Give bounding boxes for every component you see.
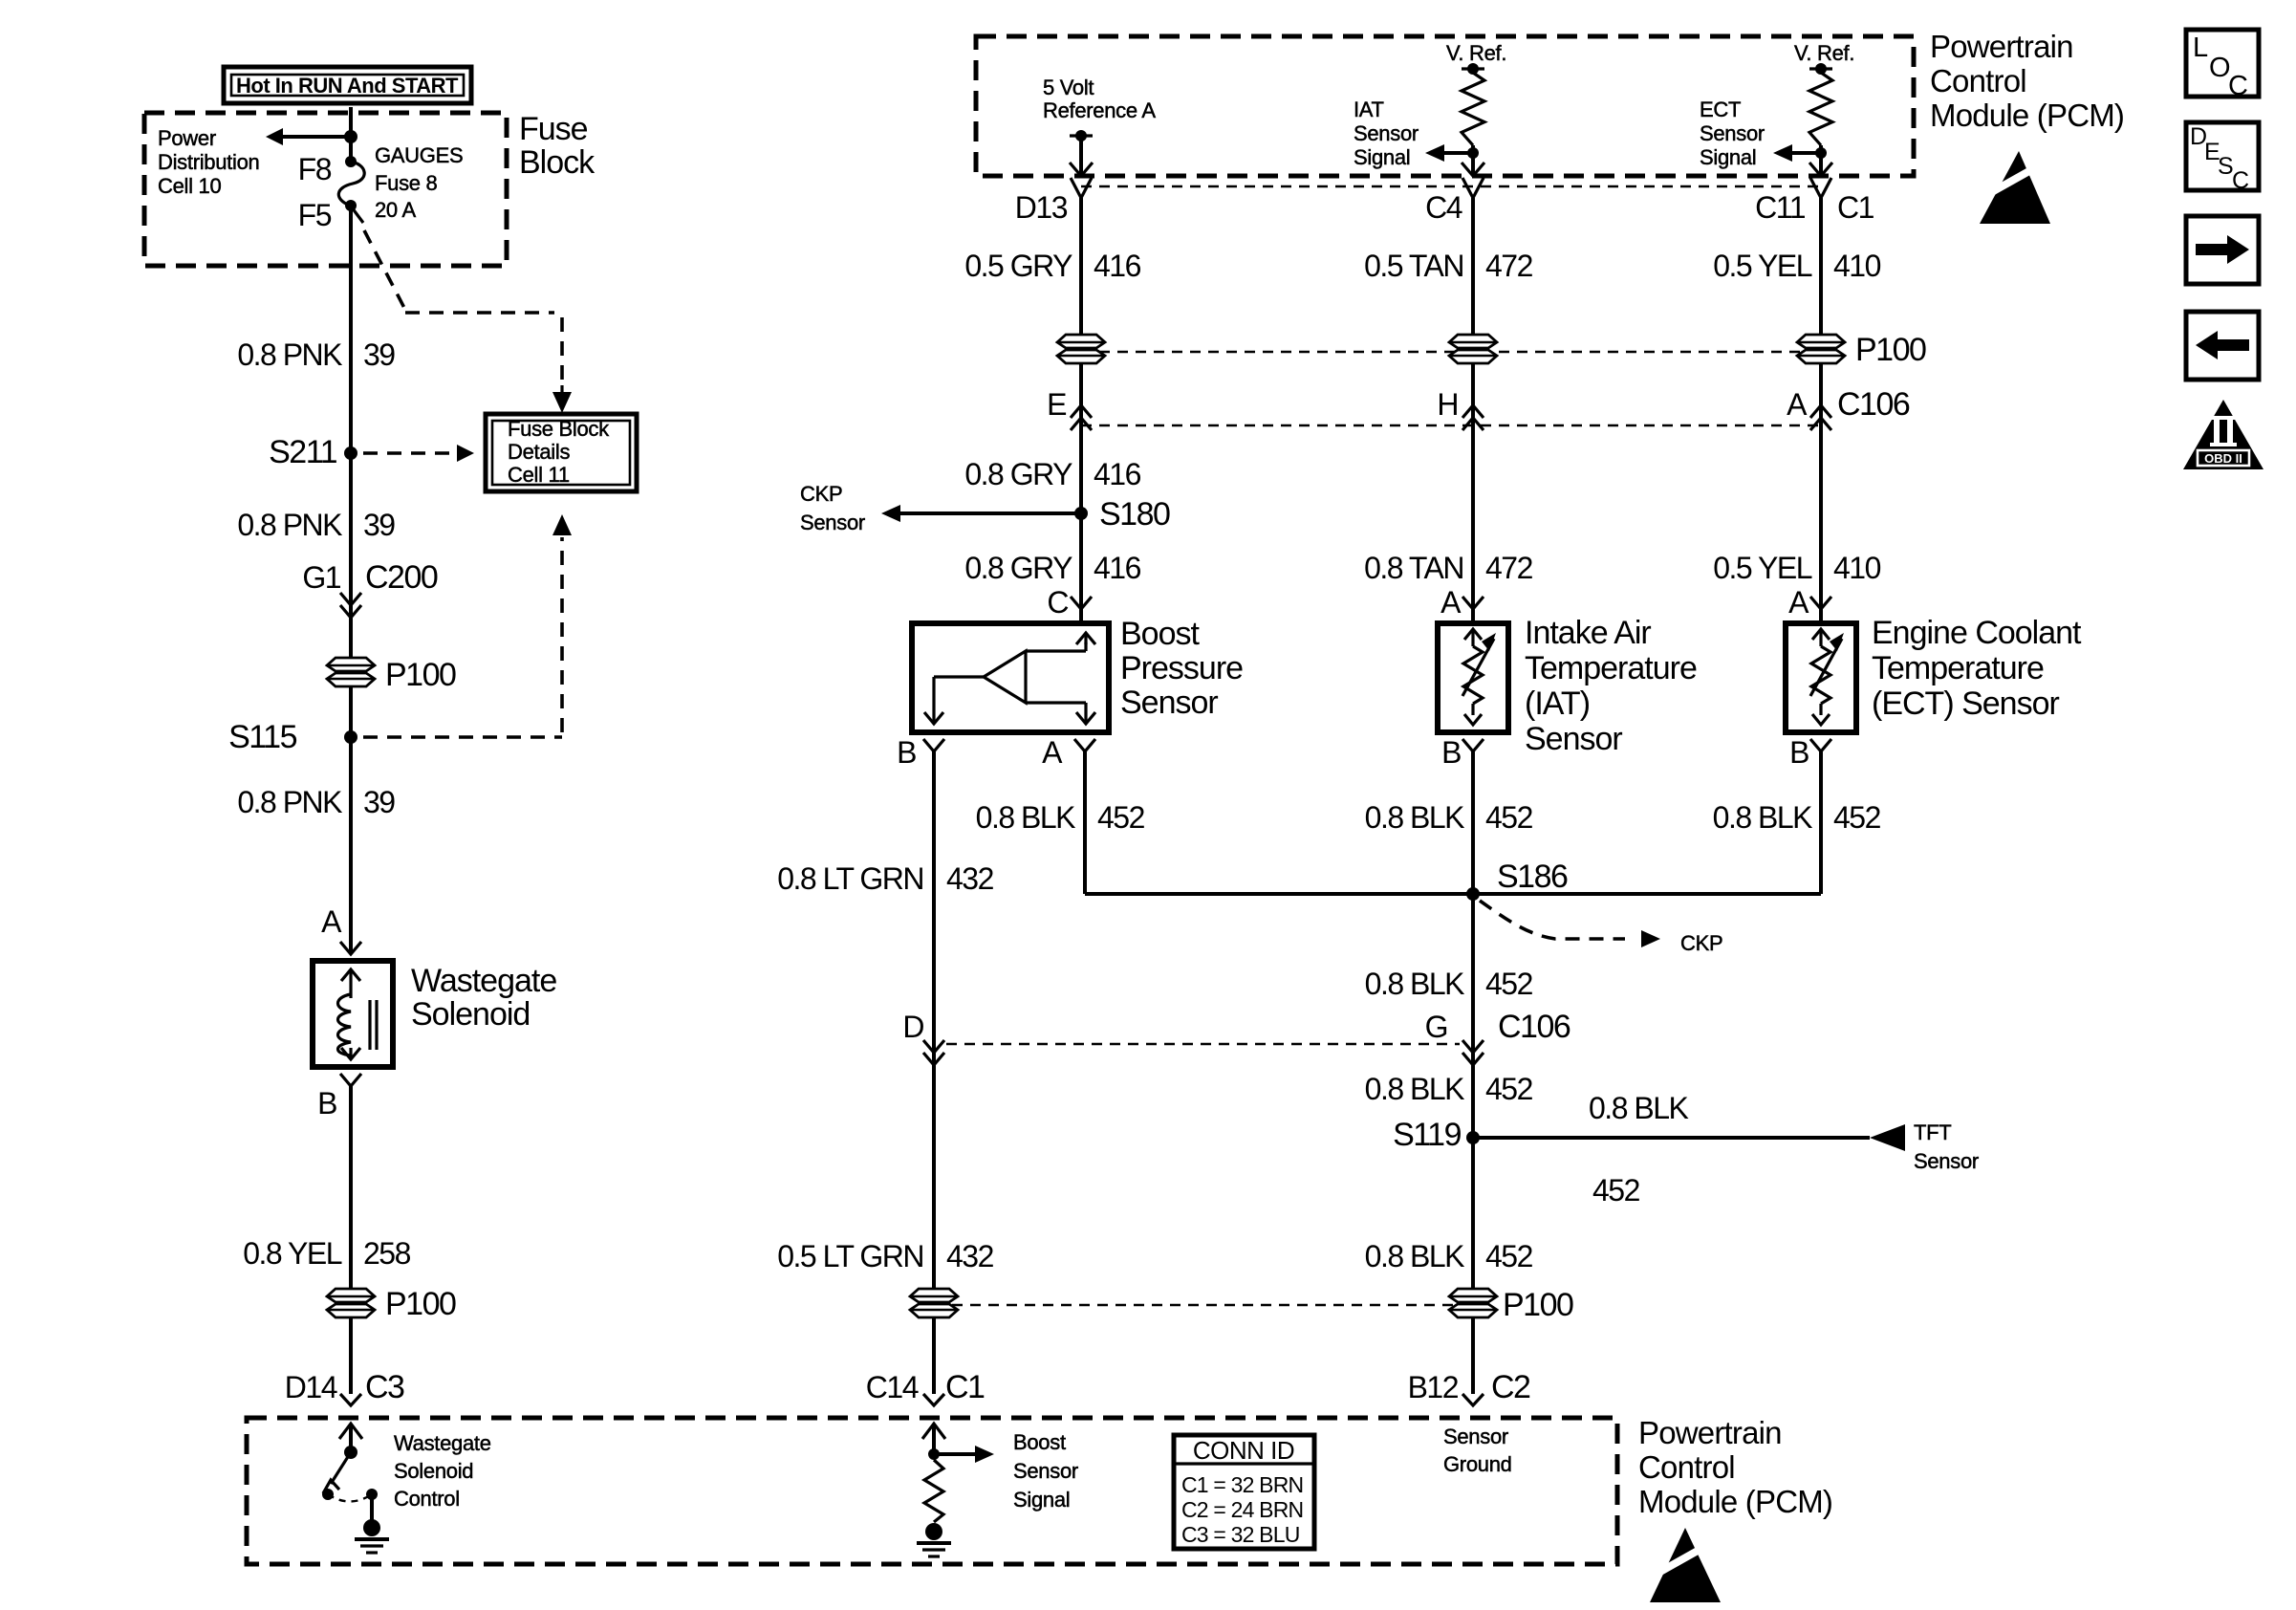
wire solenoid to PCM D14 (349, 1086, 353, 1394)
pin C11 C1 connector (1810, 178, 1831, 198)
connector P100 (TAN wire) (1449, 335, 1497, 348)
svg-text:C14: C14 (866, 1370, 919, 1404)
svg-text:D14: D14 (285, 1370, 337, 1404)
pin D13 connector (1071, 178, 1092, 198)
male pin C4 inside PCM (1462, 163, 1484, 176)
svg-text:Temperature: Temperature (1872, 650, 2044, 686)
dashed pointer S186 to CKP (1480, 901, 1625, 939)
wire S180 to CKP sensor (899, 511, 1081, 515)
connector P100 (LT GRN wire) (910, 1289, 958, 1302)
svg-text:452: 452 (1485, 1072, 1533, 1106)
svg-text:0.8 BLK: 0.8 BLK (1365, 967, 1465, 1001)
svg-text:B: B (1441, 735, 1461, 770)
svg-text:C3: C3 (365, 1369, 404, 1405)
svg-text:258: 258 (363, 1236, 411, 1271)
svg-text:C2: C2 (1491, 1369, 1530, 1405)
svg-text:Boost: Boost (1120, 616, 1200, 652)
svg-text:C: C (2228, 71, 2248, 101)
svg-text:Signal: Signal (1354, 145, 1410, 169)
fuse tail tick (352, 207, 363, 223)
svg-text:Distribution: Distribution (158, 150, 259, 174)
svg-text:C: C (2232, 167, 2249, 194)
svg-text:Solenoid: Solenoid (411, 996, 530, 1033)
svg-text:G1: G1 (302, 560, 340, 595)
dashed line S115 to details box (363, 735, 562, 739)
svg-text:Pressure: Pressure (1120, 650, 1243, 686)
boost pressure sensor box (912, 623, 1109, 732)
svg-text:C1: C1 (1837, 190, 1874, 225)
wire C11 to ECT sensor (1819, 198, 1823, 623)
svg-text:CKP: CKP (800, 482, 842, 506)
fuse block dashed box (144, 113, 507, 266)
wire fuse to wastegate solenoid (349, 206, 353, 954)
svg-text:Control: Control (1638, 1449, 1735, 1485)
wire ECT B to splice S186 (1819, 751, 1823, 894)
svg-text:Ground: Ground (1443, 1452, 1512, 1476)
pin C4 connector (1462, 178, 1484, 198)
svg-text:452: 452 (1485, 967, 1533, 1001)
V ref node (ECT) (1815, 63, 1827, 75)
svg-text:Sensor: Sensor (1700, 121, 1765, 145)
svg-text:0.8 PNK: 0.8 PNK (237, 785, 342, 819)
dashed pointer from fuse to fuse block details (364, 230, 405, 310)
svg-text:GAUGES: GAUGES (375, 143, 463, 167)
svg-text:B12: B12 (1408, 1370, 1459, 1404)
svg-text:Sensor: Sensor (1525, 721, 1622, 757)
splice S180 (1074, 507, 1088, 520)
back arrow icon (2186, 312, 2259, 380)
connector C106 row dashed link (1081, 424, 1821, 426)
svg-text:S180: S180 (1099, 496, 1170, 533)
svg-text:Solenoid: Solenoid (394, 1459, 473, 1483)
resistor in PCM (IAT pull-up) (1462, 73, 1484, 145)
DESC icon (2186, 122, 2259, 190)
IAT sensor box (1438, 623, 1508, 732)
svg-text:0.8 PNK: 0.8 PNK (237, 337, 342, 372)
male pin C14 below PCM edge (922, 1424, 945, 1439)
svg-text:C11: C11 (1755, 190, 1806, 225)
svg-text:C: C (1047, 585, 1068, 620)
svg-text:V. Ref.: V. Ref. (1794, 41, 1854, 65)
svg-text:432: 432 (946, 1239, 994, 1273)
svg-text:Control: Control (394, 1487, 460, 1511)
svg-text:0.8 BLK: 0.8 BLK (976, 800, 1076, 835)
svg-text:C1: C1 (945, 1369, 985, 1405)
wire boost B down to PCM C14 (932, 751, 936, 1394)
svg-text:F5: F5 (298, 198, 332, 232)
svg-text:A: A (1042, 735, 1063, 770)
svg-text:0.8 GRY: 0.8 GRY (964, 457, 1072, 491)
svg-text:0.8 BLK: 0.8 BLK (1713, 800, 1813, 835)
svg-text:39: 39 (363, 785, 395, 819)
arrow into details box bottom (552, 514, 572, 535)
boost sensor internal amplifier (984, 651, 1026, 703)
svg-text:472: 472 (1485, 551, 1533, 585)
svg-text:Module (PCM): Module (PCM) (1638, 1484, 1832, 1519)
wire to power distribution arrow (283, 135, 351, 139)
5 volt reference node (1075, 130, 1087, 141)
svg-text:Sensor: Sensor (1914, 1149, 1979, 1173)
svg-text:CONN ID: CONN ID (1193, 1436, 1294, 1465)
arrow to CKP sensor (881, 505, 900, 522)
fuse F8/F5 GAUGES element (345, 156, 357, 167)
svg-text:Control: Control (1930, 63, 2026, 98)
svg-text:C4: C4 (1425, 190, 1462, 225)
svg-text:39: 39 (363, 337, 395, 372)
splice S119 (1466, 1131, 1480, 1144)
svg-text:Reference A: Reference A (1043, 98, 1156, 122)
svg-text:416: 416 (1094, 457, 1141, 491)
connector P100 (YEL wire) (1797, 335, 1845, 348)
svg-text:0.5 YEL: 0.5 YEL (1713, 551, 1811, 585)
connector C106 bottom dashed link (946, 1043, 1460, 1045)
svg-text:Fuse: Fuse (519, 111, 588, 147)
IAT signal junction (1467, 147, 1479, 159)
svg-text:Details: Details (508, 440, 570, 464)
V ref node (IAT) (1467, 63, 1479, 75)
connector P100 (GRY wire) (1057, 335, 1105, 348)
svg-text:Boost: Boost (1013, 1430, 1066, 1454)
svg-text:(IAT): (IAT) (1525, 685, 1590, 722)
connector P100 on pink wire (327, 658, 375, 671)
svg-text:Sensor: Sensor (800, 511, 865, 534)
svg-text:0.8 BLK: 0.8 BLK (1365, 1239, 1465, 1273)
svg-text:Sensor: Sensor (1443, 1425, 1508, 1448)
svg-text:Power: Power (158, 126, 216, 150)
svg-text:A: A (1788, 585, 1809, 620)
svg-text:S115: S115 (228, 719, 296, 755)
svg-text:V. Ref.: V. Ref. (1446, 41, 1506, 65)
IAT thermistor symbol (1471, 631, 1474, 646)
svg-text:Engine Coolant: Engine Coolant (1872, 615, 2082, 651)
svg-text:C2 = 24 BRN: C2 = 24 BRN (1181, 1497, 1303, 1522)
svg-text:Temperature: Temperature (1525, 650, 1697, 686)
svg-text:0.8 BLK: 0.8 BLK (1365, 1072, 1465, 1106)
svg-text:S211: S211 (269, 434, 336, 470)
dashed arrow S211 to details box (363, 451, 457, 455)
svg-text:G: G (1425, 1010, 1447, 1044)
splice S186 (1466, 887, 1480, 901)
male pin C11 inside PCM (1809, 163, 1832, 176)
thin dashed connector line (top) (1081, 185, 1821, 187)
wire IAT B through S186 (1471, 751, 1475, 1394)
svg-text:C106: C106 (1498, 1009, 1570, 1045)
forward arrow icon (2186, 216, 2259, 284)
boost sensor signal node (928, 1448, 940, 1460)
svg-text:Signal: Signal (1700, 145, 1756, 169)
OBD II icon (2183, 400, 2264, 469)
wastegate solenoid control switch (344, 1446, 357, 1459)
svg-text:B: B (317, 1086, 336, 1120)
CONN ID table (1174, 1435, 1314, 1549)
wire D13 to boost sensor (1079, 198, 1083, 623)
svg-text:Cell 11: Cell 11 (508, 463, 570, 487)
svg-text:0.8 BLK: 0.8 BLK (1589, 1091, 1689, 1125)
svg-text:472: 472 (1485, 249, 1533, 283)
svg-text:0.8 YEL: 0.8 YEL (243, 1236, 341, 1271)
wire S119 to TFT sensor (1473, 1136, 1870, 1140)
svg-text:Fuse 8: Fuse 8 (375, 171, 438, 195)
svg-text:432: 432 (946, 861, 994, 896)
svg-text:Fuse Block: Fuse Block (508, 417, 610, 441)
svg-text:L: L (2193, 33, 2208, 63)
arrow from TFT sensor (1870, 1124, 1905, 1151)
svg-text:IAT: IAT (1354, 98, 1384, 121)
svg-text:0.8 TAN: 0.8 TAN (1364, 551, 1463, 585)
wire 5V ref to D13 (1079, 136, 1083, 176)
svg-text:A: A (321, 904, 342, 939)
svg-text:P100: P100 (385, 657, 456, 693)
svg-text:452: 452 (1097, 800, 1145, 835)
svg-text:Wastegate: Wastegate (411, 963, 556, 999)
svg-text:ECT: ECT (1700, 98, 1741, 121)
ECT sensor signal arrow (1790, 151, 1821, 155)
svg-text:C1 = 32 BRN: C1 = 32 BRN (1181, 1472, 1303, 1497)
header box "Hot In RUN And START" (224, 67, 471, 103)
svg-text:410: 410 (1833, 249, 1881, 283)
svg-text:39: 39 (363, 508, 395, 542)
wastegate solenoid box (313, 961, 393, 1067)
svg-text:D13: D13 (1015, 190, 1068, 225)
svg-text:(ECT) Sensor: (ECT) Sensor (1872, 685, 2059, 722)
IAT sensor signal arrow (1442, 151, 1473, 155)
svg-text:P100: P100 (1855, 332, 1926, 368)
ground at wastegate driver (363, 1519, 380, 1536)
resistor in PCM (ECT pull-up) (1809, 73, 1832, 145)
svg-text:0.5 TAN: 0.5 TAN (1364, 249, 1463, 283)
PCM dashed box (top) (976, 36, 1914, 176)
node junction at power distribution feed (344, 130, 357, 143)
svg-text:452: 452 (1485, 800, 1533, 835)
svg-text:Wastegate: Wastegate (394, 1431, 491, 1455)
connector P100 row dashed link (1081, 351, 1821, 353)
svg-text:C200: C200 (365, 559, 438, 596)
svg-text:Powertrain: Powertrain (1930, 29, 2073, 64)
ground at boost signal input (925, 1523, 942, 1540)
svg-text:Intake Air: Intake Air (1525, 615, 1651, 651)
ESD symbol (top) (1980, 151, 2050, 224)
svg-text:Sensor: Sensor (1120, 685, 1218, 721)
svg-text:0.8 GRY: 0.8 GRY (964, 551, 1072, 585)
svg-text:D: D (902, 1010, 923, 1044)
wire ECT to C11 (1819, 145, 1823, 176)
svg-text:C3 = 32 BLU: C3 = 32 BLU (1181, 1522, 1300, 1547)
svg-text:P100: P100 (385, 1286, 456, 1322)
svg-text:S186: S186 (1497, 859, 1568, 895)
wire C4 to IAT sensor (1471, 198, 1475, 623)
svg-text:0.8 LT GRN: 0.8 LT GRN (777, 861, 923, 896)
svg-text:416: 416 (1094, 249, 1141, 283)
arrow boost sensor signal (975, 1446, 994, 1463)
svg-text:452: 452 (1485, 1239, 1533, 1273)
svg-text:0.5 LT GRN: 0.5 LT GRN (777, 1239, 923, 1273)
svg-text:Hot In RUN And START: Hot In RUN And START (236, 74, 459, 98)
ECT sensor box (1786, 623, 1856, 732)
svg-text:Sensor: Sensor (1013, 1459, 1078, 1483)
svg-text:452: 452 (1833, 800, 1881, 835)
LOC icon (2186, 30, 2259, 97)
svg-text:Module (PCM): Module (PCM) (1930, 98, 2124, 133)
ESD symbol (bottom) (1650, 1528, 1721, 1602)
ECT signal junction (1815, 147, 1827, 159)
svg-text:0.8 PNK: 0.8 PNK (237, 508, 342, 542)
svg-text:Block: Block (519, 144, 596, 181)
svg-text:0.8 BLK: 0.8 BLK (1365, 800, 1465, 835)
arrow to Power Distribution (266, 128, 283, 145)
wastegate solenoid coil (349, 969, 352, 998)
svg-text:H: H (1437, 387, 1458, 422)
svg-text:0.5 GRY: 0.5 GRY (964, 249, 1072, 283)
svg-text:P100: P100 (1503, 1287, 1573, 1323)
svg-text:5 Volt: 5 Volt (1043, 76, 1094, 99)
svg-text:CKP: CKP (1680, 931, 1722, 955)
male pin D13 inside PCM (1070, 163, 1093, 176)
svg-text:Signal: Signal (1013, 1488, 1070, 1512)
ECT thermistor symbol (1819, 631, 1822, 646)
svg-text:A: A (1440, 585, 1462, 620)
svg-text:S119: S119 (1393, 1117, 1461, 1153)
svg-text:TFT: TFT (1914, 1120, 1951, 1144)
svg-text:410: 410 (1833, 551, 1881, 585)
svg-text:20 A: 20 A (375, 198, 416, 222)
splice S211 (344, 446, 357, 460)
svg-text:F8: F8 (298, 152, 332, 186)
svg-text:416: 416 (1094, 551, 1141, 585)
wire boost A to splice S186 (1083, 751, 1087, 894)
splice S115 (344, 730, 357, 744)
svg-text:A: A (1787, 387, 1808, 422)
connector P100 (BLK wire) (1449, 1289, 1497, 1302)
svg-text:Cell 10: Cell 10 (158, 174, 221, 198)
PCM dashed box (bottom) (247, 1418, 1617, 1564)
svg-text:0.5 YEL: 0.5 YEL (1713, 249, 1811, 283)
svg-text:C106: C106 (1837, 386, 1910, 423)
svg-text:B: B (897, 735, 916, 770)
male pin D14 below PCM edge (339, 1424, 362, 1439)
resistor at boost signal input (924, 1460, 943, 1522)
svg-text:452: 452 (1592, 1173, 1640, 1207)
svg-text:OBD II: OBD II (2204, 451, 2242, 466)
connector P100 on yellow wire (327, 1289, 375, 1302)
connector P100 bottom dashed link (934, 1304, 1473, 1306)
fuse block details box (486, 414, 637, 491)
wire IAT to C4 (1471, 145, 1475, 176)
svg-text:E: E (1047, 387, 1066, 422)
svg-text:B: B (1789, 735, 1809, 770)
svg-text:Sensor: Sensor (1354, 121, 1419, 145)
svg-text:Powertrain: Powertrain (1638, 1415, 1782, 1450)
arrow into details box top (560, 385, 563, 402)
wire from header into fuse block (349, 107, 353, 162)
